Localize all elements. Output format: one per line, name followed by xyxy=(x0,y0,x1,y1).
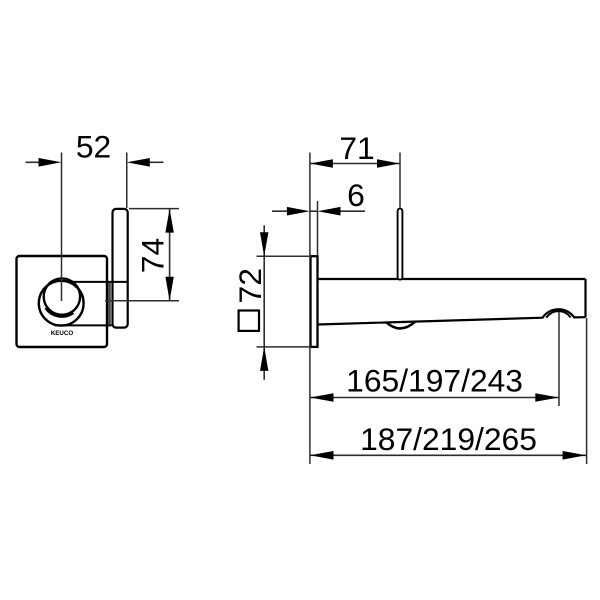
spout top edge xyxy=(318,278,586,280)
dim 71 right arrow xyxy=(377,159,400,168)
svg-text:52: 52 xyxy=(76,129,111,165)
valve stem top line xyxy=(73,281,128,283)
dim 72 dimension line xyxy=(263,225,265,380)
dim 6 dimension line segment xyxy=(310,210,318,212)
dim 52 right arrow xyxy=(127,158,150,167)
knob bottom thick arc xyxy=(46,308,73,316)
dim 6 right extension line xyxy=(317,201,319,255)
dim 6 right arrow xyxy=(318,207,341,216)
svg-text:6: 6 xyxy=(347,177,365,213)
dim 165 right arrow xyxy=(535,393,559,402)
escutcheon square plate (front view) xyxy=(17,256,108,347)
knob inner circle xyxy=(44,278,80,314)
dim 74 dimension line xyxy=(169,209,171,301)
valve stem bottom line xyxy=(55,324,112,326)
dim 187 right extension line (spout end) xyxy=(586,318,588,464)
dim 74 bottom extension line xyxy=(105,300,179,302)
dim 6 right tail line xyxy=(339,210,365,212)
svg-text:72: 72 xyxy=(232,268,268,303)
svg-text:KEUCO: KEUCO xyxy=(51,330,74,337)
wall plate (side view) xyxy=(311,256,318,347)
dim 52 left arrow xyxy=(39,158,62,167)
dim 72 top arrow xyxy=(260,232,268,256)
lever handle (front view, vertical bar) xyxy=(113,209,128,328)
knob outer circle xyxy=(39,281,84,326)
valve stem shaded stripe xyxy=(108,283,111,324)
dim 74 bottom arrow xyxy=(165,277,173,301)
dim 72 square symbol xyxy=(239,311,259,331)
dim 187 right arrow xyxy=(563,451,586,460)
dim 165 dimension line xyxy=(310,397,559,399)
dim 71 right extension line (pin centre) xyxy=(399,153,401,209)
dim 187 left arrow xyxy=(310,451,334,460)
dim 187 dimension line xyxy=(310,454,586,456)
spout outlet bump inner arc xyxy=(546,311,570,318)
spout bottom edge with outlet bump xyxy=(318,309,586,324)
dim 52 left extension line (to knob centre) xyxy=(61,153,63,302)
dim 72 top extension line xyxy=(257,255,312,257)
dim 52 right extension line xyxy=(126,153,128,209)
svg-text:187/219/265: 187/219/265 xyxy=(360,421,537,457)
spout right end edge xyxy=(584,279,586,317)
dim 74 top arrow xyxy=(165,209,173,233)
dim 165 right extension line (outlet) xyxy=(558,312,560,406)
aerator lens detail xyxy=(386,322,415,329)
dim 52 left tail line xyxy=(26,161,41,163)
dim 72 bottom extension line xyxy=(257,346,312,348)
dim 6 left arrow xyxy=(287,207,310,216)
dim 71 dimension line xyxy=(310,163,400,165)
svg-text:165/197/243: 165/197/243 xyxy=(346,363,523,399)
svg-text:71: 71 xyxy=(339,130,374,166)
temperature pin on spout xyxy=(398,209,403,280)
dim 165 left arrow xyxy=(310,393,334,402)
dim 6 left tail line xyxy=(272,210,290,212)
dim 72 bottom arrow xyxy=(260,347,268,371)
dim 71 left extension line xyxy=(309,153,311,256)
bottom dims left extension line xyxy=(309,348,311,464)
dim 52 right tail line xyxy=(148,161,164,163)
svg-text:74: 74 xyxy=(135,238,171,273)
dim 74 top extension line xyxy=(129,208,179,210)
dim 71 left arrow xyxy=(310,159,333,168)
